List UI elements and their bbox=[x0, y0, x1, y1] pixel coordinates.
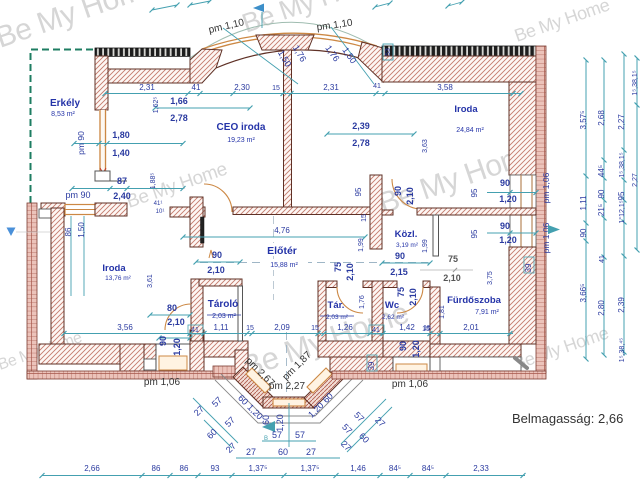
svg-text:1,88⁵: 1,88⁵ bbox=[150, 173, 157, 190]
south window below Wc bbox=[393, 357, 430, 372]
middle dimension row bbox=[188, 323, 514, 336]
svg-text:1,37⁵: 1,37⁵ bbox=[301, 464, 320, 473]
dashed axis horizontal bbox=[200, 262, 428, 264]
Tarolo north wall bbox=[199, 279, 242, 286]
Tar west wall bbox=[318, 281, 326, 341]
bay vertical dims bbox=[288, 403, 290, 447]
svg-text:3,61: 3,61 bbox=[147, 274, 154, 288]
svg-text:Fürdőszoba: Fürdőszoba bbox=[447, 295, 502, 306]
svg-text:15: 15 bbox=[272, 85, 280, 92]
svg-text:1,11: 1,11 bbox=[579, 195, 588, 211]
svg-text:2,01: 2,01 bbox=[463, 323, 479, 332]
svg-text:3,56: 3,56 bbox=[117, 323, 133, 332]
svg-text:1⁵,38,1⁵: 1⁵,38,1⁵ bbox=[619, 152, 626, 177]
svg-text:8,53 m²: 8,53 m² bbox=[51, 111, 75, 118]
bay right diagonal window bbox=[307, 368, 332, 393]
teal arrow B bbox=[262, 421, 275, 432]
svg-text:1,99: 1,99 bbox=[358, 238, 365, 252]
svg-text:39: 39 bbox=[367, 361, 376, 370]
svg-text:1⁵,38,1⁵: 1⁵,38,1⁵ bbox=[632, 70, 639, 95]
svg-text:57: 57 bbox=[295, 430, 305, 440]
svg-text:Iroda: Iroda bbox=[102, 263, 126, 274]
Iroda13 south window dims bbox=[159, 337, 190, 339]
notch in south wall bbox=[144, 359, 156, 370]
Tarolo west wall bbox=[191, 279, 203, 341]
arc apex pier bbox=[256, 35, 314, 50]
Furdo west wall upper thin bbox=[433, 215, 439, 256]
svg-text:1,20: 1,20 bbox=[172, 338, 182, 356]
bay bottom 27/60/27 bbox=[236, 457, 340, 459]
svg-text:90: 90 bbox=[158, 336, 168, 346]
svg-text:10¹: 10¹ bbox=[156, 209, 165, 215]
svg-text:41: 41 bbox=[373, 83, 381, 90]
svg-text:1⁵,38,⁴⁵: 1⁵,38,⁴⁵ bbox=[619, 338, 626, 362]
east wall brick veneer bbox=[536, 46, 546, 373]
top center marker triangle bbox=[253, 4, 264, 13]
svg-text:2,78: 2,78 bbox=[170, 113, 188, 123]
svg-text:2,31: 2,31 bbox=[139, 83, 155, 92]
Furdoszoba south wall bbox=[430, 344, 521, 357]
svg-text:13,76 m²: 13,76 m² bbox=[105, 275, 131, 282]
bay left brick patch bbox=[213, 366, 235, 377]
svg-text:1,46: 1,46 bbox=[350, 464, 366, 473]
right dim column 1 bbox=[579, 58, 589, 362]
small top dim D bbox=[375, 3, 390, 7]
Kozl door arc bbox=[392, 179, 422, 209]
svg-text:90: 90 bbox=[597, 189, 606, 198]
bow window glazing arcs bbox=[202, 33, 377, 49]
bay left outside dims bbox=[193, 398, 238, 443]
svg-text:CEO iroda: CEO iroda bbox=[217, 122, 266, 133]
svg-text:95: 95 bbox=[470, 188, 479, 197]
bay right vertical block bbox=[331, 350, 345, 377]
svg-text:2,10: 2,10 bbox=[207, 265, 225, 275]
svg-text:86: 86 bbox=[152, 464, 161, 473]
svg-text:1,81: 1,81 bbox=[439, 305, 446, 319]
svg-text:60: 60 bbox=[261, 415, 271, 425]
east wall hatched upper segment bbox=[509, 82, 536, 175]
svg-text:2,10: 2,10 bbox=[408, 288, 418, 306]
svg-text:2,39: 2,39 bbox=[352, 121, 370, 131]
svg-text:2,03 m²: 2,03 m² bbox=[212, 313, 236, 320]
svg-text:90: 90 bbox=[393, 186, 403, 196]
arc leader line right bbox=[331, 27, 374, 84]
Tar north wall stubs + door bbox=[326, 281, 337, 288]
svg-text:27: 27 bbox=[306, 447, 316, 457]
svg-text:1°12,1⁵: 1°12,1⁵ bbox=[618, 200, 626, 223]
svg-text:41: 41 bbox=[192, 83, 201, 92]
Kozl wall tab bbox=[382, 210, 393, 215]
svg-text:2,10: 2,10 bbox=[167, 317, 185, 327]
small orange arrow bbox=[209, 250, 213, 258]
right dim column 3 bbox=[617, 52, 627, 363]
svg-text:95: 95 bbox=[470, 229, 479, 238]
left small dim lines 86/1,50 bbox=[70, 216, 72, 296]
svg-text:3,63: 3,63 bbox=[422, 139, 429, 153]
svg-text:41¹: 41¹ bbox=[154, 201, 163, 207]
svg-text:1,37⁵: 1,37⁵ bbox=[249, 464, 268, 473]
south brick band left bbox=[27, 371, 241, 379]
south wall pier deeper bbox=[120, 344, 144, 371]
svg-text:15: 15 bbox=[361, 214, 368, 222]
air gap white band bbox=[440, 357, 521, 371]
svg-text:2,39: 2,39 bbox=[617, 297, 626, 313]
svg-text:Tár.: Tár. bbox=[328, 300, 345, 311]
svg-text:pm 1,06: pm 1,06 bbox=[144, 377, 181, 388]
svg-text:2,62 m²: 2,62 m² bbox=[382, 314, 405, 321]
svg-text:2,31: 2,31 bbox=[323, 83, 339, 92]
svg-text:Előtér: Előtér bbox=[267, 245, 297, 257]
west wall brick veneer bbox=[27, 203, 37, 379]
svg-text:1,80: 1,80 bbox=[112, 130, 130, 140]
svg-text:7,91 m²: 7,91 m² bbox=[475, 309, 499, 316]
svg-text:1,76: 1,76 bbox=[359, 295, 366, 309]
watermark: Be My Home texts bbox=[0, 0, 612, 385]
bay bottom window bbox=[273, 399, 305, 406]
svg-text:1,20: 1,20 bbox=[411, 340, 421, 358]
reference arc line above bow window bbox=[190, 22, 385, 58]
svg-text:21⁵: 21⁵ bbox=[597, 204, 606, 216]
svg-text:3,19 m²: 3,19 m² bbox=[396, 242, 419, 249]
svg-text:41: 41 bbox=[599, 255, 606, 263]
right dim column 2 bbox=[597, 58, 607, 358]
svg-text:Wc: Wc bbox=[385, 300, 399, 311]
top-right dark hatched wall strip bbox=[382, 46, 536, 56]
svg-text:19,23 m²: 19,23 m² bbox=[227, 137, 255, 144]
svg-text:Tároló: Tároló bbox=[208, 299, 239, 310]
svg-text:2,27: 2,27 bbox=[632, 173, 639, 187]
svg-text:3,57⁵: 3,57⁵ bbox=[579, 111, 588, 130]
svg-text:95: 95 bbox=[354, 187, 363, 196]
east wall hatched lower segment bbox=[509, 247, 536, 344]
svg-text:39: 39 bbox=[524, 263, 533, 272]
bay right brick patch bbox=[345, 366, 365, 377]
svg-text:1,40: 1,40 bbox=[112, 148, 130, 158]
window between Erkely and CEO iroda bbox=[99, 110, 107, 171]
Erkely south wall hatched w/ window bbox=[41, 203, 65, 216]
arc leader line left bbox=[223, 28, 298, 84]
hatched wall pier top-left vertical bbox=[95, 56, 108, 110]
door leaf dark line bbox=[201, 217, 205, 243]
svg-text:93: 93 bbox=[211, 464, 220, 473]
arc left pier bbox=[190, 49, 222, 83]
svg-text:15: 15 bbox=[246, 325, 254, 332]
svg-text:27: 27 bbox=[246, 447, 256, 457]
west wall end box bbox=[39, 209, 52, 218]
svg-text:2,80: 2,80 bbox=[597, 300, 606, 316]
svg-text:3,58: 3,58 bbox=[437, 83, 453, 92]
svg-text:75: 75 bbox=[396, 287, 406, 297]
svg-text:86: 86 bbox=[180, 464, 189, 473]
corner chute mark bbox=[515, 358, 527, 368]
svg-text:1,62⁵: 1,62⁵ bbox=[153, 97, 160, 114]
svg-text:pm 1,06: pm 1,06 bbox=[392, 379, 429, 390]
bay left diagonal wall bbox=[233, 367, 274, 408]
pier 41 sticking into room bbox=[190, 330, 204, 371]
svg-text:2,09: 2,09 bbox=[274, 323, 290, 332]
svg-text:Belmagasság: 2,66: Belmagasság: 2,66 bbox=[512, 411, 623, 426]
bay bottom 57/57 bbox=[262, 440, 316, 442]
pier below window bbox=[95, 171, 110, 181]
svg-text:84⁵: 84⁵ bbox=[389, 464, 401, 473]
svg-text:1,42: 1,42 bbox=[399, 323, 415, 332]
wall below Wc bbox=[383, 341, 430, 357]
teal arrow east bbox=[548, 225, 560, 234]
Tarolo east wall bbox=[238, 286, 243, 341]
svg-text:Közl.: Közl. bbox=[395, 229, 418, 240]
divider wall CEO/Iroda bbox=[284, 50, 292, 209]
bay bottom wall bbox=[263, 397, 315, 408]
south wall hatched band left bbox=[39, 344, 156, 364]
svg-text:90: 90 bbox=[500, 221, 510, 231]
svg-text:pm 1,06: pm 1,06 bbox=[541, 172, 551, 203]
room label Előtér bbox=[256, 243, 308, 256]
svg-text:86: 86 bbox=[64, 227, 73, 236]
bay steps outline bbox=[215, 374, 363, 423]
svg-text:41: 41 bbox=[372, 327, 380, 334]
svg-text:15,88 m²: 15,88 m² bbox=[270, 262, 298, 269]
bay left vertical block bbox=[235, 350, 248, 377]
north band right of Kozl door bbox=[417, 208, 536, 215]
bottom dimension row bbox=[40, 464, 526, 478]
svg-text:15: 15 bbox=[311, 325, 319, 332]
svg-text:2,27: 2,27 bbox=[617, 114, 626, 130]
top-left dark hatched wall strip bbox=[95, 48, 190, 57]
arc right pier bbox=[358, 42, 383, 82]
svg-text:95: 95 bbox=[617, 191, 626, 200]
area underlines bbox=[207, 314, 241, 316]
svg-text:84⁵: 84⁵ bbox=[422, 464, 434, 473]
svg-text:1,20: 1,20 bbox=[499, 194, 517, 204]
Tar/Wc divider wall bbox=[372, 281, 383, 341]
boxed 41 labels bbox=[188, 325, 203, 334]
small top dim A bbox=[152, 5, 177, 10]
svg-text:1,20: 1,20 bbox=[499, 235, 517, 245]
svg-text:1,66: 1,66 bbox=[170, 96, 188, 106]
west wall hatched layer bbox=[51, 208, 64, 344]
svg-text:4,76: 4,76 bbox=[274, 226, 290, 235]
svg-text:80: 80 bbox=[167, 303, 177, 313]
svg-text:60: 60 bbox=[278, 447, 288, 457]
svg-text:87: 87 bbox=[117, 176, 127, 186]
window ledge box below dark strip bbox=[99, 57, 190, 70]
svg-text:1,99: 1,99 bbox=[422, 239, 429, 253]
svg-text:2,30: 2,30 bbox=[234, 83, 250, 92]
Wc north stubs + door bbox=[383, 281, 397, 288]
bay left diagonal window bbox=[246, 368, 271, 393]
left margin triangle bbox=[7, 228, 16, 237]
svg-text:44⁵: 44⁵ bbox=[597, 165, 606, 177]
svg-text:53: 53 bbox=[385, 48, 392, 56]
Kozl west wall bbox=[370, 175, 382, 249]
right dim column 4 bbox=[632, 56, 640, 253]
svg-text:41: 41 bbox=[191, 327, 199, 334]
svg-text:2,10: 2,10 bbox=[443, 273, 461, 283]
svg-text:2,10: 2,10 bbox=[345, 263, 355, 281]
svg-text:2,78: 2,78 bbox=[352, 138, 370, 148]
hatched wall band top-left bbox=[108, 69, 202, 83]
east wall window 1 bbox=[510, 175, 536, 209]
svg-text:2,10: 2,10 bbox=[405, 187, 415, 205]
svg-text:57: 57 bbox=[272, 430, 282, 440]
balcony Erkely dashed green outline bbox=[31, 50, 97, 204]
hatched block right of bay bbox=[331, 341, 383, 372]
small top dim B bbox=[190, 1, 210, 5]
small top dim E bbox=[448, 2, 462, 6]
junction bar Iroda13 north bbox=[170, 207, 205, 217]
Tar door arc bbox=[337, 287, 363, 313]
svg-text:90: 90 bbox=[395, 251, 405, 261]
east wall window 2 bbox=[510, 215, 536, 247]
svg-text:90: 90 bbox=[500, 178, 510, 188]
Furdo west wall lower bbox=[430, 287, 440, 344]
Wc door arc bbox=[397, 287, 423, 313]
boxed 39 labels bbox=[367, 355, 377, 371]
svg-text:2,15: 2,15 bbox=[390, 267, 408, 277]
CEO south wall bbox=[233, 207, 378, 215]
junction vertical bar bbox=[190, 197, 203, 247]
inner face arc of bow window bbox=[216, 50, 372, 68]
CEO door arc bbox=[204, 184, 232, 212]
lower south band with window (below Wc) bbox=[330, 357, 393, 372]
top-right hatched wall band bbox=[382, 56, 536, 82]
svg-text:90: 90 bbox=[212, 250, 222, 260]
svg-text:15: 15 bbox=[422, 326, 430, 333]
Tarolo door arc bbox=[165, 304, 191, 330]
svg-text:1,26: 1,26 bbox=[337, 323, 353, 332]
bay right diagonal wall bbox=[304, 367, 345, 408]
svg-text:3,66⁵: 3,66⁵ bbox=[579, 284, 588, 303]
svg-text:2,68: 2,68 bbox=[597, 110, 606, 126]
svg-text:pm 2,27: pm 2,27 bbox=[269, 381, 306, 392]
svg-text:Iroda: Iroda bbox=[454, 104, 478, 115]
hatched block left of bay bbox=[204, 341, 248, 357]
svg-text:1,11: 1,11 bbox=[214, 323, 230, 332]
Tar/Wc south partition band bbox=[318, 341, 383, 357]
svg-text:75: 75 bbox=[448, 254, 458, 264]
bay right outside dims bbox=[341, 399, 386, 444]
svg-text:2,03 m²: 2,03 m² bbox=[326, 314, 349, 321]
south brick band right bbox=[332, 371, 546, 379]
svg-text:90: 90 bbox=[579, 228, 588, 237]
top dimension row bbox=[103, 83, 524, 96]
dashed axis vertical bbox=[273, 216, 275, 300]
south window left bbox=[156, 344, 190, 371]
svg-text:3,75: 3,75 bbox=[487, 271, 494, 285]
svg-text:Erkély: Erkély bbox=[50, 98, 80, 109]
boxed 53 label bbox=[383, 44, 393, 60]
svg-text:1,50: 1,50 bbox=[77, 222, 86, 238]
svg-text:24,84 m²: 24,84 m² bbox=[456, 127, 484, 134]
svg-text:75: 75 bbox=[333, 262, 343, 272]
svg-text:pm 90: pm 90 bbox=[76, 131, 86, 155]
svg-text:90: 90 bbox=[398, 341, 408, 351]
svg-text:pm 90: pm 90 bbox=[65, 190, 90, 200]
Furdo door dim line bbox=[420, 269, 473, 271]
svg-text:2,40: 2,40 bbox=[113, 191, 131, 201]
svg-text:2,66: 2,66 bbox=[84, 464, 100, 473]
svg-text:2,33: 2,33 bbox=[473, 464, 489, 473]
